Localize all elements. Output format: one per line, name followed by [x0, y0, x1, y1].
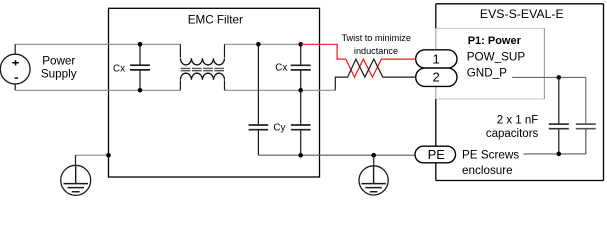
choke L1 top winding	[180, 44, 224, 57]
svg-text:capacitors: capacitors	[486, 128, 539, 140]
choke L1 bottom winding	[180, 80, 224, 90]
ground G1 (protective earth)	[61, 165, 91, 195]
PE terminal	[415, 146, 456, 163]
node: PE tap on EMC enclosure	[106, 153, 111, 158]
svg-text:2 x 1 nF: 2 x 1 nF	[497, 115, 539, 127]
node: Cy1 top junction	[256, 42, 261, 47]
svg-text:Twist to minimize: Twist to minimize	[341, 33, 410, 43]
EMC Filter enclosure box	[109, 8, 320, 177]
svg-text:EMC Filter: EMC Filter	[188, 14, 243, 27]
node A: line1 junction at Cx2 top	[298, 42, 303, 47]
capacitor Cx1	[139, 44, 141, 90]
svg-text:POW_SUP: POW_SUP	[467, 51, 526, 64]
svg-text:2: 2	[432, 70, 439, 85]
pin 1 terminal	[416, 50, 457, 68]
wire: GND_P to capacitors	[512, 77, 586, 124]
node: C1 top junction on GND_P	[557, 75, 562, 80]
node: Cx1 bottom junction	[138, 88, 143, 93]
node: C1 bottom junction on PE	[557, 152, 562, 157]
EVS-S-EVAL-E enclosure box	[436, 4, 604, 181]
wire: bottom rail, choke to twist elbow	[225, 89, 336, 91]
connector P1 inner box	[436, 28, 545, 99]
svg-text:PE Screws: PE Screws	[462, 149, 519, 162]
svg-text:Power: Power	[42, 55, 75, 68]
svg-text:P1: Power: P1: Power	[468, 35, 522, 47]
capacitor Cy2 (line 2 to PE)	[300, 90, 302, 155]
svg-text:Cx: Cx	[113, 64, 125, 75]
svg-text:inductance: inductance	[354, 46, 398, 56]
wire: top rail, supply to choke	[15, 43, 180, 45]
node: Cx1 top junction	[138, 42, 143, 47]
node: Cy2 on PE wire	[298, 153, 303, 158]
svg-text:Supply: Supply	[41, 67, 77, 80]
wire: stem to ground G2	[373, 155, 375, 165]
svg-text:EVS-S-EVAL-E: EVS-S-EVAL-E	[480, 7, 564, 21]
node: line2 junction at Cx2/Cy2	[298, 88, 303, 93]
wire: top rail, choke to node A	[225, 43, 301, 45]
pin 2 terminal	[416, 68, 457, 86]
node: ground G2 tap on PE wire	[371, 153, 376, 158]
svg-text:Cy: Cy	[273, 123, 285, 134]
wire: PE, ground G1 to EMC enclosure	[76, 154, 109, 156]
capacitor Cy1 (line 1 to PE)	[257, 44, 259, 155]
svg-text:PE: PE	[428, 147, 446, 162]
choke L1 core	[181, 68, 225, 70]
capacitor Cx2	[300, 44, 302, 90]
wire: black twisted lead, line 2 to pin 2	[335, 59, 415, 90]
svg-text:GND_P: GND_P	[467, 67, 507, 80]
svg-text:enclosure: enclosure	[462, 164, 513, 177]
svg-text:Cx: Cx	[275, 63, 287, 74]
capacitor C1 (1 nF)	[558, 77, 560, 153]
wire: PE screws to capacitors	[524, 153, 586, 155]
wire: bottom rail, supply to choke	[15, 89, 180, 91]
ground G2 (protective earth)	[359, 166, 388, 195]
wire: red twisted lead, node A to pin 1	[301, 44, 416, 77]
svg-text:1: 1	[432, 52, 439, 67]
power supply source V1	[14, 44, 16, 90]
capacitor C2 (1 nF)	[585, 129, 587, 154]
wire: PE, Cy bottoms to PE terminal	[258, 154, 415, 156]
